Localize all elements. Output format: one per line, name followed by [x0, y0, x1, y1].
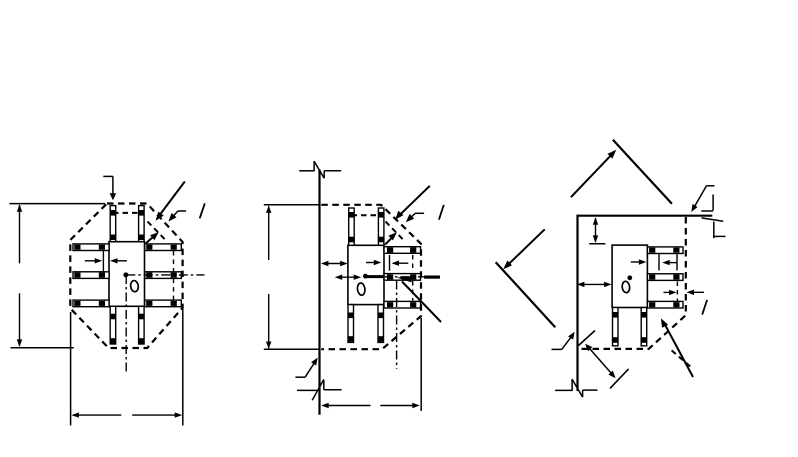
jack right row3 D1	[145, 300, 182, 307]
jack pad dashed line D3	[676, 282, 678, 301]
shelter body D1	[109, 242, 145, 307]
wall leader arrow D3	[552, 332, 575, 350]
site boundary D3	[578, 217, 686, 349]
offset dashed line D3	[672, 350, 693, 368]
center offset arrows D2	[335, 275, 362, 280]
jack right row1 D1	[145, 244, 182, 251]
jack top-right D1	[139, 206, 145, 242]
wall top D3	[578, 215, 713, 217]
offset dimension arrows D1	[85, 258, 127, 263]
leader arrow top D1	[103, 176, 116, 200]
jack left row2 D1	[73, 272, 109, 279]
boundary offset arrows D3	[664, 290, 705, 296]
diagonal line upper D3	[613, 140, 672, 204]
extension line bottom dim left D1	[70, 312, 72, 425]
diagonal arrow upper D3	[571, 150, 616, 197]
center point D3	[627, 275, 632, 280]
label slash D2	[439, 205, 444, 220]
jack right row2 D2	[384, 274, 421, 281]
offset dimension arrows D2	[366, 260, 408, 266]
extension line D3	[589, 243, 605, 245]
jack pad dashed connector D1	[113, 212, 141, 214]
diagonal arrow left D3	[503, 229, 545, 269]
center point D2	[363, 274, 368, 279]
vertical dimension line D1 left	[17, 204, 22, 347]
bold dash right D2	[424, 276, 440, 279]
label 0 D2	[357, 283, 366, 296]
extension line bottom dim right D2	[420, 318, 422, 411]
shelter body D3	[612, 245, 647, 307]
offset dashed line D2	[386, 222, 405, 241]
extension line bottom dim right D1	[182, 309, 184, 426]
site boundary D2	[321, 205, 421, 349]
jack bottom-left D1	[110, 306, 116, 344]
wall break top D2	[299, 161, 341, 178]
jack bottom-left D2	[348, 305, 354, 343]
wall break bottom D2	[297, 379, 342, 400]
extension line bottom D2	[264, 348, 319, 350]
centerline vertical D2	[396, 281, 398, 369]
bold segment center-to-wall D2	[365, 275, 384, 278]
centerline horizontal D1	[126, 274, 204, 276]
extension line top-left D1	[10, 203, 106, 205]
bottom dimension D2	[321, 403, 420, 408]
shelter body D2	[348, 245, 384, 304]
vertical dimension D3	[593, 217, 598, 243]
diagonal dimension D3	[585, 344, 616, 378]
long leader arrow D1	[156, 182, 185, 221]
offset dashed line D1	[148, 222, 167, 241]
jack top-left D1	[110, 206, 116, 242]
jack left row3 D1	[73, 300, 109, 307]
label 0 D1	[130, 280, 139, 292]
extension line bottom-left D1	[11, 347, 74, 349]
jack right row1 D3	[647, 247, 683, 254]
jack pad line D2	[389, 255, 391, 271]
site boundary octagon D1	[70, 204, 182, 349]
label slash D1	[200, 203, 205, 218]
jack right row1 D2	[384, 247, 421, 254]
diagonal tick 2 D3	[610, 369, 629, 389]
jack bottom-right D2	[378, 305, 384, 343]
jack bottom-right D3	[641, 308, 647, 346]
jack left row1 D1	[73, 244, 109, 251]
corner arrow D1	[146, 232, 159, 243]
jack pad dashed connector D2	[352, 214, 382, 216]
wall leader arrow D2	[295, 358, 317, 378]
diagonal tick 1 D3	[579, 331, 596, 346]
jack right row2 D1	[145, 272, 182, 279]
jack top-right D2	[378, 208, 384, 245]
leader from lower right D2	[397, 276, 441, 322]
jack bottom-right D1	[139, 306, 145, 344]
horizontal dimension D3	[577, 282, 612, 287]
jack right row3 D3	[647, 301, 683, 308]
jack pad dashed line D2	[412, 255, 414, 301]
jack right row2 D3	[647, 274, 683, 281]
label slash D3	[702, 300, 707, 315]
vertical dimension line D2 left	[266, 205, 271, 349]
wall line D2	[318, 170, 320, 415]
wall break top-right D3	[701, 195, 725, 239]
short leader arrow D2	[406, 213, 424, 222]
jack pad line a D3	[658, 254, 660, 270]
long leader arrow D2	[395, 186, 430, 220]
label 0 D3	[622, 281, 631, 293]
corner arrow D2	[385, 232, 397, 244]
offset dimension arrows D3	[631, 259, 677, 265]
wall left D3	[576, 215, 578, 391]
jack pad line D1 left	[102, 251, 104, 272]
corner leader arrow D3	[691, 186, 714, 212]
jack bottom-left D3	[613, 308, 619, 346]
jack top-left D2	[349, 208, 355, 245]
jack pad dashed line D1 right	[173, 251, 175, 300]
leader from lower right D3	[661, 318, 693, 377]
wall break bottom D3	[555, 379, 597, 397]
jack right row3 D2	[384, 301, 421, 308]
jack pad line b D3	[676, 254, 678, 270]
short leader arrow D1	[168, 211, 186, 222]
extension line top D2	[264, 204, 320, 206]
centerline vertical D1	[125, 275, 127, 372]
diagonal line left D3	[496, 262, 556, 327]
center point D1	[123, 272, 128, 277]
wall offset dimension D2	[321, 261, 348, 266]
bottom dimension D1	[71, 412, 182, 417]
centerline horizontal D2	[365, 276, 440, 278]
